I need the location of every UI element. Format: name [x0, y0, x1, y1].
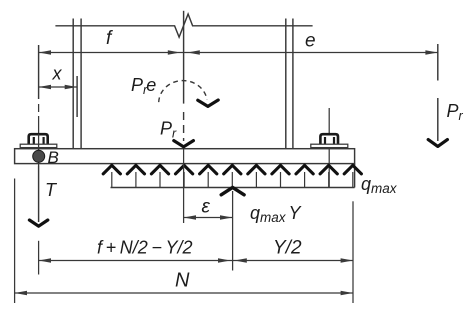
label x: [52, 64, 63, 84]
label epsilon: [202, 197, 211, 218]
extension line for x at flange face: [76, 76, 78, 117]
dimension line f+N/2-Y/2 and Y/2: [39, 258, 353, 262]
svg-text:Y/2: Y/2: [273, 238, 302, 259]
node B marker (bolt in plan): [33, 150, 45, 162]
bearing pressure arrowheads: [103, 165, 361, 174]
hidden anchor rod above left nut: [38, 104, 40, 134]
dimension line epsilon: [184, 215, 233, 219]
bearing pressure baseline: [111, 187, 355, 189]
extension line left plate edge bottom: [14, 179, 16, 304]
thin rod above right nut: [328, 108, 330, 133]
label f: [106, 28, 113, 49]
applied load Pr arrowhead: [174, 141, 194, 147]
svg-text:N: N: [175, 270, 190, 292]
dimension line N: [15, 291, 353, 295]
bearing pressure arrow stems: [112, 172, 353, 188]
label Pr (right): [447, 101, 464, 123]
dimension line x: [39, 85, 78, 89]
right anchor bolt nut and washer: [311, 134, 348, 147]
resultant qmaxY arrow: [221, 187, 244, 270]
bearing pressure right edge: [354, 164, 356, 188]
column centerline extension through plate and pressure block: [183, 149, 185, 223]
svg-text:B: B: [48, 148, 59, 167]
label N: [175, 270, 190, 292]
label B: [48, 148, 59, 167]
moment Pr e dashed arc: [159, 81, 207, 103]
label Y/2: [273, 238, 302, 259]
column left flange: [73, 19, 81, 149]
right Pr force arrow: [428, 44, 447, 146]
svg-text:e: e: [305, 31, 316, 52]
label T: [45, 180, 58, 200]
label Pr e (moment): [131, 75, 156, 97]
column top line with break symbol: [55, 14, 312, 37]
moment arc arrowhead: [198, 100, 218, 106]
extension line below left bolt for bottom dimension: [38, 241, 40, 275]
tension force T arrow: [29, 166, 47, 227]
label qmax (right of pressure block): [361, 174, 398, 196]
extension line at left anchor bolt centerline: [38, 45, 40, 99]
left anchor bolt nut and washer: [20, 134, 57, 147]
base plate: [15, 149, 355, 164]
label qmax Y: [250, 203, 303, 225]
svg-text:f + N/2 − Y/2: f + N/2 − Y/2: [97, 238, 192, 258]
dimension line f and e: [39, 50, 438, 54]
label Pr (center load): [160, 119, 177, 141]
right anchor bolt shank through plate: [328, 148, 330, 188]
left anchor bolt shank through plate: [38, 134, 40, 166]
svg-text:x: x: [52, 64, 63, 84]
svg-text:ε: ε: [202, 197, 211, 218]
column right flange: [286, 19, 293, 149]
applied load Pr dashed action line: [183, 112, 185, 141]
column centerline (upper solid segment): [183, 11, 185, 104]
extension line right side bottom: [352, 201, 354, 303]
label e: [305, 31, 316, 52]
label f+N/2-Y/2: [97, 238, 192, 258]
